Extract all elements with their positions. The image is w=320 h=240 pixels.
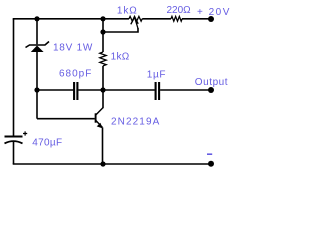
wire base L horizontal: [37, 118, 95, 120]
capacitor C1 680pF right plate: [76, 82, 78, 100]
wire base row right: [78, 89, 103, 91]
capacitor C3 470uF top plate: [5, 135, 23, 137]
wire output row right: [160, 89, 211, 91]
wire resistor bottom lead: [102, 66, 104, 90]
wire collector vertical to node: [102, 90, 104, 108]
resistor R3 220 ohm zigzag: [171, 16, 182, 21]
svg-text:1kΩ: 1kΩ: [111, 52, 130, 63]
capacitor C2 1uF right plate: [158, 82, 160, 100]
node junction base network: [34, 87, 39, 92]
svg-text:18V 1W: 18V 1W: [53, 43, 93, 54]
wire left rail upper: [13, 19, 15, 136]
wire emitter vertical: [102, 127, 104, 164]
svg-text:220Ω: 220Ω: [167, 5, 192, 16]
wire collector branch vertical: [102, 19, 104, 52]
wire bottom rail: [13, 163, 211, 165]
zener diode D1 triangle: [31, 46, 44, 53]
capacitor C3 470uF curved plate: [5, 141, 23, 143]
wire output row left: [103, 89, 155, 91]
wire top rail segment 1: [13, 18, 129, 20]
zener diode D1 bar with bent ends: [26, 42, 50, 48]
transistor Q1 collector diagonal: [96, 108, 103, 115]
node junction top rail zener tap: [34, 16, 39, 21]
wire wiper horizontal: [103, 28, 138, 32]
node junction wiper tie: [100, 29, 105, 34]
terminal Output: [208, 87, 214, 93]
capacitor C1 680pF left plate: [73, 82, 75, 100]
node junction top rail collector branch: [100, 16, 105, 21]
wire base L vertical: [36, 90, 38, 119]
wiper arrow shaft: [135, 18, 138, 29]
resistor R2 1k trimmer zigzag: [129, 16, 142, 21]
transistor Q1 emitter arrow: [97, 123, 103, 129]
svg-text:2N2219A: 2N2219A: [111, 117, 160, 128]
resistor R1 1k vertical zigzag: [100, 52, 106, 66]
wiper arrow head: [131, 17, 138, 24]
transistor Q1 base bar: [95, 113, 97, 122]
svg-text:470µF: 470µF: [32, 138, 62, 149]
capacitor C2 1uF left plate: [155, 82, 157, 100]
wire left rail lower: [13, 142, 15, 165]
wire top rail segment 3: [182, 18, 211, 20]
svg-text:680pF: 680pF: [59, 69, 92, 80]
node junction collector: [100, 87, 105, 92]
wire base row left: [37, 89, 73, 91]
wire zener cathode lead: [36, 19, 38, 44]
svg-text:1µF: 1µF: [147, 70, 166, 81]
transistor Q1 emitter diagonal: [96, 121, 102, 128]
svg-text:Output: Output: [195, 77, 228, 88]
node junction emitter bottom rail: [100, 161, 105, 166]
svg-text:+ 20V: + 20V: [197, 7, 231, 18]
terminal negative: [208, 161, 214, 167]
capacitor C3 plus sign: [23, 131, 27, 135]
wire zener anode lead: [36, 52, 38, 90]
label negative sign: [207, 153, 212, 155]
terminal +20V: [208, 16, 214, 22]
svg-text:1kΩ: 1kΩ: [117, 6, 138, 17]
wire top rail segment 2: [142, 18, 171, 20]
